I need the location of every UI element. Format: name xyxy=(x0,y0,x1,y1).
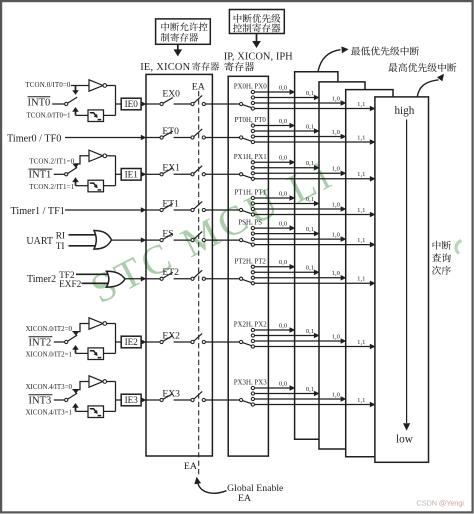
switch EA row ES xyxy=(191,232,206,242)
wire PT1H, PT1 priority 0,0 xyxy=(255,190,296,200)
wire PX1H, PX1 priority 1,0 xyxy=(255,166,347,176)
svg-text:0,1: 0,1 xyxy=(306,328,314,335)
svg-text:1,0: 1,0 xyxy=(332,201,341,208)
svg-text:RI: RI xyxy=(56,232,65,242)
flag box IE0 xyxy=(121,98,141,110)
svg-text:EXF2: EXF2 xyxy=(59,280,82,290)
svg-text:low: low xyxy=(396,434,414,446)
arrow from priority-register box to IP label xyxy=(252,34,261,49)
OR gate Timer2 xyxy=(106,271,125,287)
wire ET0 to IP box xyxy=(205,137,239,139)
svg-text:PT2H, PT2: PT2H, PT2 xyxy=(234,258,266,265)
wire PT0H, PT0 priority 0,1 xyxy=(255,123,320,133)
svg-text:1,0: 1,0 xyxy=(332,270,341,277)
wire PX0H, PX0 priority 1,1 xyxy=(255,101,376,111)
svg-text:PSH, PS: PSH, PS xyxy=(238,220,262,227)
svg-text:INT3: INT3 xyxy=(29,395,52,406)
svg-text:TI: TI xyxy=(56,242,65,252)
svg-text:0,1: 0,1 xyxy=(306,123,314,130)
wire PT0H, PT0 priority 1,0 xyxy=(255,129,347,139)
svg-text:1,1: 1,1 xyxy=(357,207,365,214)
IE / XICON enable register box xyxy=(146,74,212,456)
switch EA row ET2 xyxy=(191,270,206,280)
svg-text:0,1: 0,1 xyxy=(306,90,314,97)
wire EX2 to IP box xyxy=(205,341,239,343)
wire EX3 to IP box xyxy=(205,399,239,401)
svg-text:INT2: INT2 xyxy=(29,337,52,348)
svg-text:EA: EA xyxy=(238,493,251,504)
box 中断优先级控制寄存器 xyxy=(229,10,284,34)
svg-text:1,1: 1,1 xyxy=(357,276,365,283)
wire IE2 to IE box xyxy=(141,339,147,344)
wire PSH, PS priority 1,0 xyxy=(255,232,347,242)
svg-text:0,0: 0,0 xyxy=(279,84,288,91)
svg-text:IE1: IE1 xyxy=(125,170,139,180)
wire PX2H, PX2 priority 1,0 xyxy=(255,333,347,343)
wire EX0 to IP box xyxy=(205,103,239,105)
switch EA row EX2 xyxy=(191,333,206,343)
svg-text:TCON.0/IT0=0: TCON.0/IT0=0 xyxy=(25,81,71,89)
svg-text:XICON.4/IT3=1: XICON.4/IT3=1 xyxy=(26,409,73,417)
svg-text:IE3: IE3 xyxy=(125,395,139,405)
switch EX1 xyxy=(146,168,190,176)
wire PX0H, PX0 priority 1,0 xyxy=(255,95,347,105)
wire PT1H, PT1 priority 1,0 xyxy=(255,201,347,211)
wire PT0H, PT0 priority 0,0 xyxy=(255,118,296,128)
wire ET2 to IP box xyxy=(205,278,239,280)
box 中断允许控制寄存器 xyxy=(156,19,211,44)
svg-text:IE2: IE2 xyxy=(125,337,139,347)
svg-text:PX1H, PX1: PX1H, PX1 xyxy=(234,154,267,161)
svg-text:PT0H, PT0: PT0H, PT0 xyxy=(234,117,266,124)
svg-text:0,1: 0,1 xyxy=(306,265,314,272)
wire PSH, PS priority 0,1 xyxy=(255,226,320,236)
switch ES xyxy=(146,234,190,242)
svg-text:XICON.0/IT2=0: XICON.0/IT2=0 xyxy=(26,325,73,333)
callout lowest priority xyxy=(318,46,349,71)
priority selector switch PX2H, PX2 xyxy=(240,328,255,348)
EA global enable dashed line xyxy=(198,91,200,477)
priority queue bar 0,0 xyxy=(295,72,338,440)
polling order arrow xyxy=(403,120,410,431)
wire IE3 to IE box xyxy=(141,397,147,402)
svg-text:TCON.2/IT1=1: TCON.2/IT1=1 xyxy=(29,183,74,191)
wire ES xyxy=(112,237,147,242)
wire PX3H, PX3 priority 0,1 xyxy=(255,386,320,396)
priority selector switch PSH, PS xyxy=(240,227,255,247)
svg-text:high: high xyxy=(394,105,414,117)
label 最低优先级中断 xyxy=(351,46,419,55)
priority selector switch PT0H, PT0 xyxy=(240,124,255,144)
wire PX1H, PX1 priority 0,1 xyxy=(255,160,320,170)
label IE, XICON寄存器 xyxy=(140,62,219,73)
input Timer1 / TF1 xyxy=(11,206,147,217)
svg-text:IE0: IE0 xyxy=(125,99,139,109)
svg-text:Global Enable: Global Enable xyxy=(227,483,284,494)
wire ES to IP box xyxy=(205,239,239,241)
svg-text:INT1: INT1 xyxy=(29,170,52,181)
svg-text:CSDN @Yengi: CSDN @Yengi xyxy=(416,499,464,508)
priority selector switch PT2H, PT2 xyxy=(240,265,255,285)
svg-text:0,0: 0,0 xyxy=(279,322,288,329)
input block INT2 xyxy=(26,318,122,360)
svg-text:0,1: 0,1 xyxy=(306,160,314,167)
wire PT2H, PT2 priority 1,0 xyxy=(255,270,347,280)
interrupt polling box xyxy=(375,97,429,462)
flag box IE2 xyxy=(121,336,141,348)
svg-text:1,0: 1,0 xyxy=(332,129,341,136)
svg-text:1,1: 1,1 xyxy=(357,134,365,141)
svg-text:1,0: 1,0 xyxy=(332,391,341,398)
switch EX2 xyxy=(146,336,190,344)
global enable callout arrow xyxy=(194,477,226,493)
svg-text:1,1: 1,1 xyxy=(357,237,365,244)
svg-text:XICON.4/IT3=0: XICON.4/IT3=0 xyxy=(26,383,73,391)
priority queue bar 0,1 xyxy=(319,82,365,449)
svg-text:0,0: 0,0 xyxy=(279,190,288,197)
label 中断查询次序 xyxy=(432,241,451,275)
wire IE1 to IE box xyxy=(141,172,147,177)
wire PX2H, PX2 priority 0,1 xyxy=(255,328,320,338)
OR gate UART xyxy=(94,231,112,250)
input UART RI/TI xyxy=(26,232,99,252)
svg-text:0,0: 0,0 xyxy=(279,155,288,162)
switch EA row ET0 xyxy=(191,129,206,139)
input block INT3 xyxy=(26,376,122,418)
svg-text:1,0: 1,0 xyxy=(332,232,341,239)
svg-text:TCON.0/IT0=1: TCON.0/IT0=1 xyxy=(27,111,72,119)
svg-text:PX2H, PX2: PX2H, PX2 xyxy=(234,322,267,329)
svg-text:1,0: 1,0 xyxy=(332,333,341,340)
switch EA row EX0 xyxy=(191,95,206,105)
svg-text:UART: UART xyxy=(26,236,53,247)
wire PT2H, PT2 priority 0,1 xyxy=(255,265,320,275)
switch EX0 xyxy=(146,98,190,106)
watermark STC MCU xyxy=(83,150,340,312)
wire PX2H, PX2 priority 1,1 xyxy=(255,339,376,349)
svg-text:0,0: 0,0 xyxy=(279,118,288,125)
svg-text:PX3H, PX3: PX3H, PX3 xyxy=(234,380,267,387)
svg-text:0,1: 0,1 xyxy=(306,196,314,203)
svg-text:PT1H, PT1: PT1H, PT1 xyxy=(234,190,266,197)
wire PX3H, PX3 priority 1,1 xyxy=(255,397,376,407)
IP register box xyxy=(228,76,268,456)
svg-text:1,1: 1,1 xyxy=(357,339,365,346)
svg-text:XICON.0/IT2=1: XICON.0/IT2=1 xyxy=(26,351,73,359)
label IP, XICON, IPH 寄存器 xyxy=(224,52,293,72)
svg-text:0,0: 0,0 xyxy=(279,221,288,228)
input Timer2 TF2/EXF2 xyxy=(27,271,112,290)
svg-text:Timer2: Timer2 xyxy=(27,274,56,285)
priority queue bar 1,0 xyxy=(346,90,393,457)
wire PT2H, PT2 priority 0,0 xyxy=(255,259,296,269)
svg-text:0,1: 0,1 xyxy=(306,226,314,233)
svg-text:1,1: 1,1 xyxy=(357,101,365,108)
input block INT1 xyxy=(29,150,122,192)
svg-text:INT0: INT0 xyxy=(28,97,51,108)
wire PX2H, PX2 priority 0,0 xyxy=(255,322,296,332)
wire PX1H, PX1 priority 0,0 xyxy=(255,155,296,165)
svg-text:0,1: 0,1 xyxy=(306,386,314,393)
wire PT1H, PT1 priority 1,1 xyxy=(255,207,376,217)
wire IE0 to IE box xyxy=(141,101,147,106)
priority selector switch PX0H, PX0 xyxy=(240,90,255,110)
svg-text:1,1: 1,1 xyxy=(357,171,365,178)
svg-text:Timer1 / TF1: Timer1 / TF1 xyxy=(11,206,65,217)
priority selector switch PT1H, PT1 xyxy=(240,196,255,216)
label Global Enable EA xyxy=(227,483,284,504)
svg-text:PX0H, PX0: PX0H, PX0 xyxy=(234,84,267,91)
arrow from enable-register box to IE,XICON label xyxy=(174,44,183,56)
wire PX3H, PX3 priority 1,0 xyxy=(255,391,347,401)
svg-text:1,0: 1,0 xyxy=(332,166,341,173)
wire PX3H, PX3 priority 0,0 xyxy=(255,380,296,390)
label 最高优先级中断 xyxy=(388,63,456,72)
input Timer0 / TF0 xyxy=(7,134,146,145)
wire PT0H, PT0 priority 1,1 xyxy=(255,134,376,144)
wire PT1H, PT1 priority 0,1 xyxy=(255,196,320,206)
wire PX1H, PX1 priority 1,1 xyxy=(255,171,376,181)
watermark fragment xyxy=(456,241,462,254)
flag box IE1 xyxy=(121,169,141,181)
svg-text:IP, XICON, IPH: IP, XICON, IPH xyxy=(224,52,293,63)
switch ET0 xyxy=(146,131,190,139)
switch ET1 xyxy=(146,204,190,212)
svg-text:0,0: 0,0 xyxy=(279,259,288,266)
switch EA row EX1 xyxy=(191,166,206,176)
wire PT2H, PT2 priority 1,1 xyxy=(255,276,376,286)
svg-text:Timer0 / TF0: Timer0 / TF0 xyxy=(7,134,61,145)
callout highest priority xyxy=(417,74,444,97)
svg-text:0,0: 0,0 xyxy=(279,380,288,387)
switch ET2 xyxy=(146,272,190,280)
input block INT0 xyxy=(25,80,121,122)
switch EA row EX3 xyxy=(191,391,206,401)
wire PX0H, PX0 priority 0,0 xyxy=(255,84,296,94)
wire PSH, PS priority 0,0 xyxy=(255,221,296,231)
wire EX1 to IP box xyxy=(205,173,239,175)
priority selector switch PX3H, PX3 xyxy=(240,386,255,406)
svg-text:TCON.2/IT1=0: TCON.2/IT1=0 xyxy=(29,157,74,165)
wire PSH, PS priority 1,1 xyxy=(255,237,376,247)
switch EA row ET1 xyxy=(191,201,206,211)
wire PX0H, PX0 priority 0,1 xyxy=(255,90,320,100)
svg-text:IE, XICON: IE, XICON xyxy=(140,62,190,73)
wire ET2 xyxy=(125,276,146,281)
svg-text:EA: EA xyxy=(192,81,205,92)
wire ET1 to IP box xyxy=(205,209,239,211)
priority selector switch PX1H, PX1 xyxy=(240,161,255,181)
svg-text:1,1: 1,1 xyxy=(357,397,365,404)
flag box IE3 xyxy=(121,394,141,406)
svg-text:1,0: 1,0 xyxy=(332,95,341,102)
svg-text:EA: EA xyxy=(184,461,197,472)
switch EX3 xyxy=(146,394,190,402)
